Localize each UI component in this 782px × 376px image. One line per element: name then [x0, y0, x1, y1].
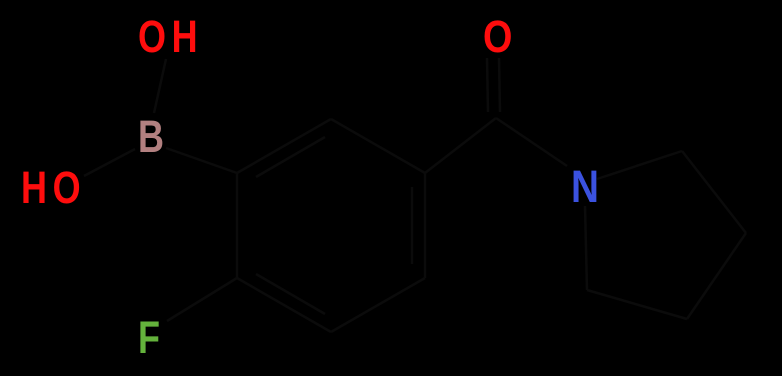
pyrrolidine bond C4'-C5' — [587, 290, 687, 319]
benzene ring edge C5-C4 — [424, 173, 427, 278]
pyrrolidine bond C2'-C3' — [682, 151, 746, 233]
carbonyl C=O double bond line 1 — [487, 58, 488, 112]
benzene ring edge C6-C5 — [331, 119, 425, 173]
bond carbonyl C to N — [496, 118, 567, 166]
bond ring C2 to F — [167, 278, 237, 321]
benzene ring edge C2-C1 — [236, 173, 239, 278]
aromatic double bond inner line bottom-left — [256, 274, 325, 314]
label N (pyrrolidine nitrogen) — [571, 161, 605, 211]
pyrrolidine bond C3'-C4' — [687, 233, 746, 319]
aromatic double bond inner line top-left — [256, 137, 325, 177]
benzene ring edge C3-C2 — [237, 278, 331, 332]
bond B to OH top — [154, 59, 166, 113]
label F (fluorine) — [138, 312, 166, 363]
carbonyl C=O double bond line 2 — [499, 58, 500, 112]
aromatic double bond inner line right — [411, 187, 414, 264]
label HO (boronic acid left) — [21, 162, 86, 213]
label B (boron) — [138, 111, 170, 162]
label O (carbonyl oxygen) — [483, 11, 518, 62]
svg-text:OH: OH — [138, 11, 203, 62]
svg-text:HO: HO — [21, 162, 86, 213]
svg-text:B: B — [138, 111, 170, 162]
bond B to HO left — [84, 149, 135, 176]
pyrrolidine bond N-C2' — [597, 151, 682, 179]
benzene ring edge C1-C6 — [237, 119, 331, 173]
svg-text:F: F — [138, 312, 166, 363]
svg-text:O: O — [483, 11, 518, 62]
bond B to ring C1 — [166, 148, 237, 173]
benzene ring edge C4-C3 — [331, 278, 425, 332]
bond ring C5 to carbonyl C — [425, 118, 496, 173]
svg-text:N: N — [571, 161, 605, 211]
pyrrolidine bond C5'-N — [585, 206, 587, 290]
label OH (boronic acid top) — [138, 11, 203, 62]
